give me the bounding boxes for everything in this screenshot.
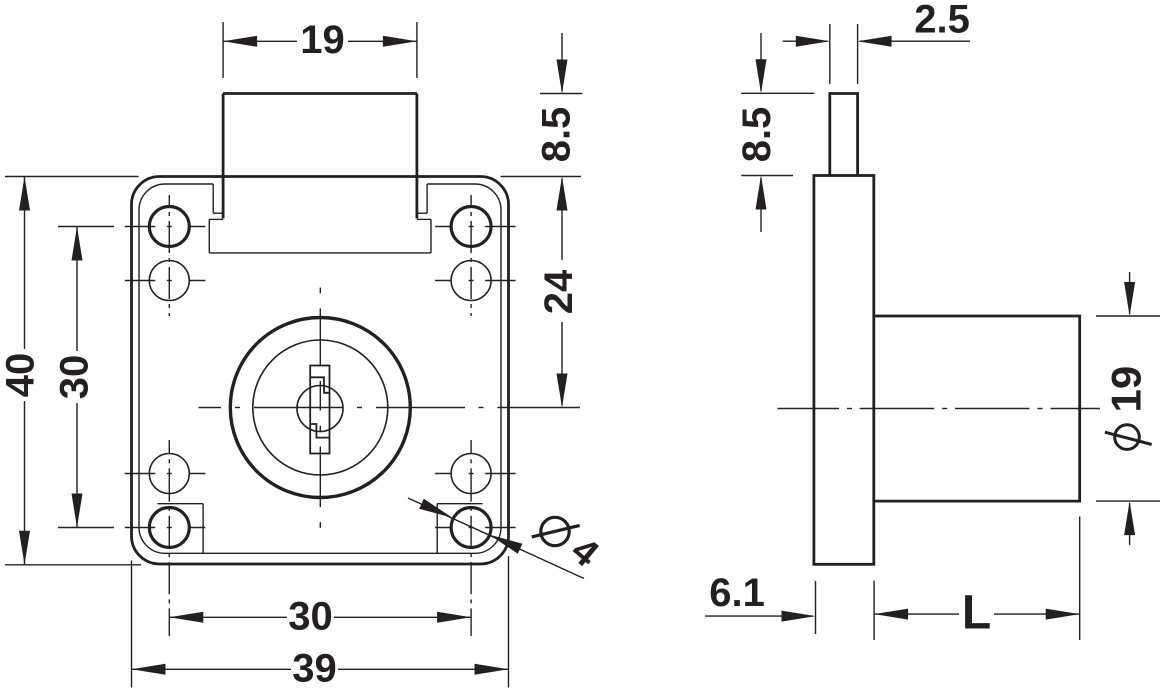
svg-text:39: 39	[292, 647, 337, 691]
corner step bottom-right	[437, 504, 482, 554]
dim 30 left line	[72, 227, 83, 528]
latch guide plate	[209, 219, 431, 253]
center tick top-left holes	[125, 227, 206, 281]
dim dia19 label	[1103, 366, 1152, 450]
screw hole bottom-left	[149, 508, 189, 548]
latch guide notch right	[417, 184, 427, 213]
svg-text:6.1: 6.1	[709, 571, 765, 615]
dim 24 label	[537, 269, 581, 314]
svg-text:L: L	[962, 587, 991, 640]
dim 8.5 front arrows	[557, 33, 568, 260]
svg-text:40: 40	[0, 353, 43, 398]
dim 19 extension lines	[223, 22, 417, 78]
hole centerline bottom-left	[168, 440, 170, 636]
side centerline	[778, 408, 1101, 410]
front horizontal centerline	[199, 407, 581, 409]
pilot hole lower-left	[149, 454, 189, 494]
dim 8.5 side ticks	[741, 93, 814, 175]
dim 30 bottom label	[288, 595, 333, 639]
dim 30 bottom line	[169, 612, 471, 623]
svg-text:30: 30	[53, 355, 97, 400]
front vertical centerline	[319, 288, 321, 528]
dim L label	[962, 587, 991, 640]
hole centerline top-left	[168, 195, 170, 316]
latch bolt side	[830, 94, 858, 176]
dim L line	[874, 609, 1080, 620]
latch bolt front	[223, 94, 417, 219]
dim 19 line	[223, 36, 417, 47]
screw hole top-right	[451, 207, 491, 247]
dim 8.5 front label	[535, 107, 579, 163]
cylinder body side	[874, 316, 1080, 501]
dim 39 line	[132, 664, 509, 675]
dim 39 label	[292, 647, 337, 691]
dim 2.5 extension lines	[830, 24, 858, 84]
dim 6.1 extension line	[815, 581, 817, 634]
dim dia4 leader line	[408, 498, 584, 579]
dim 39 extension lines	[132, 556, 509, 688]
cylinder outer circle	[230, 318, 410, 498]
center tick top-right holes	[435, 227, 515, 281]
svg-text:24: 24	[537, 269, 581, 314]
svg-text:2.5: 2.5	[914, 0, 970, 42]
dim 8.5 front ticks	[501, 94, 583, 177]
dim 30 left label	[53, 355, 97, 400]
pilot hole lower-right	[451, 454, 491, 494]
lock body front outline	[132, 177, 509, 565]
dim L extension lines	[874, 517, 1080, 641]
keyway boss circle	[297, 386, 343, 432]
pilot hole upper-right	[451, 261, 491, 301]
corner step bottom-left	[158, 504, 204, 554]
lock body inner contour	[139, 184, 501, 553]
dim 40 line	[19, 177, 30, 565]
svg-text:19: 19	[300, 18, 345, 62]
dim 24 line	[557, 322, 568, 408]
dim 8.5 side arrows	[756, 33, 767, 232]
dim 19 label	[300, 18, 345, 62]
keyway slot	[310, 366, 329, 454]
latch guide notch left	[213, 184, 223, 213]
center tick bottom-left holes	[125, 474, 206, 528]
svg-text:8.5: 8.5	[735, 107, 779, 163]
center tick bottom-right holes	[435, 474, 515, 528]
dim 40 extension lines	[5, 177, 141, 565]
screw hole bottom-right	[451, 508, 491, 548]
dim 40 label	[0, 353, 43, 398]
svg-text:8.5: 8.5	[535, 107, 579, 163]
dim dia4 label	[532, 517, 606, 575]
dim dia19 arrows	[1124, 272, 1135, 545]
cylinder inner circle	[253, 340, 388, 475]
pilot hole upper-left	[149, 261, 189, 301]
svg-text:19: 19	[1103, 366, 1150, 413]
dim 2.5 label	[914, 0, 970, 42]
dim 6.1 line	[705, 611, 815, 622]
hole centerline top-right	[470, 195, 472, 316]
flange plate side	[814, 176, 874, 565]
dim dia19 ticks	[1096, 316, 1160, 501]
hole centerline bottom-right	[470, 440, 472, 636]
dim 8.5 side label	[735, 107, 779, 163]
svg-text:30: 30	[288, 595, 333, 639]
dim 30 left ticks	[58, 227, 114, 528]
dim 2.5 line	[783, 36, 970, 47]
dim 6.1 label	[709, 571, 765, 615]
dim dia4 arrows	[419, 499, 522, 554]
screw hole top-left	[149, 207, 189, 247]
